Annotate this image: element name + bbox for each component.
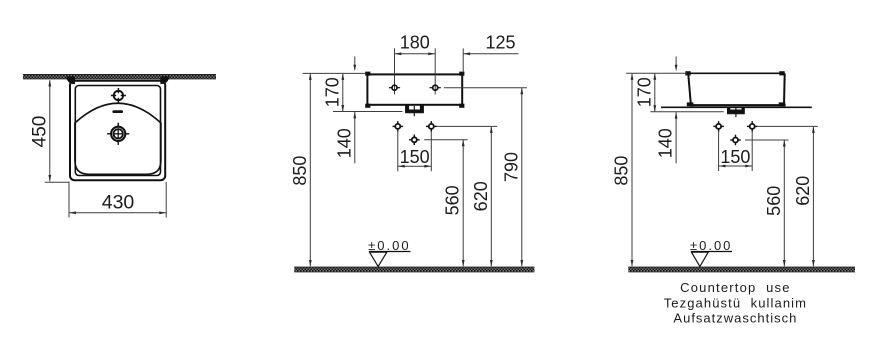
- svg-text:Aufsatzwaschtisch: Aufsatzwaschtisch: [673, 311, 797, 326]
- svg-text:430: 430: [102, 192, 135, 214]
- svg-text:850: 850: [290, 156, 310, 186]
- svg-text:850: 850: [612, 156, 632, 186]
- svg-text:Tezgahüstü kullanim: Tezgahüstü kullanim: [664, 295, 807, 310]
- svg-text:140: 140: [334, 128, 354, 158]
- svg-text:±0.00: ±0.00: [368, 238, 410, 253]
- svg-text:Countertop use: Countertop use: [680, 280, 791, 295]
- svg-text:560: 560: [443, 185, 463, 215]
- svg-text:620: 620: [793, 176, 813, 206]
- svg-text:150: 150: [720, 147, 750, 167]
- svg-text:150: 150: [400, 147, 430, 167]
- svg-text:180: 180: [400, 33, 430, 53]
- svg-text:620: 620: [471, 181, 491, 211]
- svg-text:±0.00: ±0.00: [690, 238, 732, 253]
- svg-text:125: 125: [485, 33, 515, 53]
- svg-text:560: 560: [764, 186, 784, 216]
- svg-text:170: 170: [634, 77, 654, 107]
- svg-text:140: 140: [656, 128, 676, 158]
- svg-text:170: 170: [322, 77, 342, 107]
- svg-text:450: 450: [29, 116, 50, 148]
- svg-text:790: 790: [501, 152, 521, 182]
